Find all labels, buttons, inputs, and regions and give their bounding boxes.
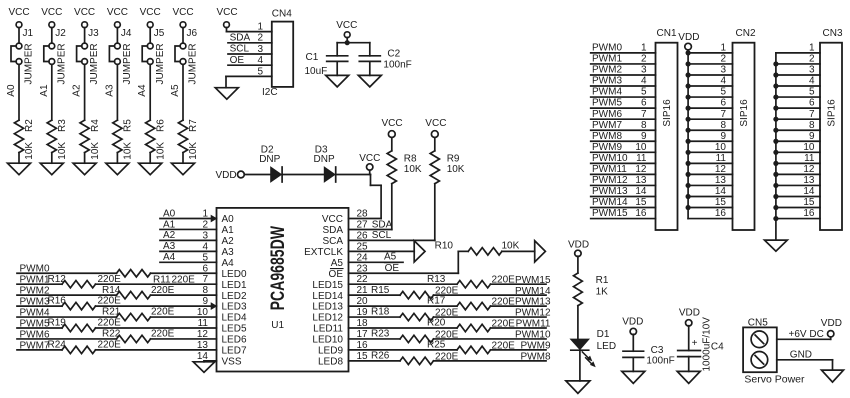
svg-text:A0: A0 (6, 84, 17, 97)
ground C3 (622, 371, 645, 383)
CN2 pin 11 wire (686, 153, 733, 166)
LED D1 (571, 329, 616, 381)
svg-text:PWM13: PWM13 (515, 297, 551, 308)
svg-text:R12: R12 (48, 274, 67, 285)
op-amp U1 PCA9685DW body (217, 208, 349, 372)
label R24 value (48, 340, 122, 351)
svg-text:2: 2 (720, 54, 726, 65)
svg-text:5: 5 (809, 87, 815, 98)
svg-text:A5: A5 (170, 84, 181, 97)
svg-text:13: 13 (715, 175, 727, 186)
svg-text:R17: R17 (427, 296, 446, 307)
svg-text:PWM6: PWM6 (592, 109, 622, 120)
svg-text:JUMPER: JUMPER (24, 43, 35, 84)
svg-text:J4: J4 (121, 28, 132, 39)
CN3 pin 12 wire (773, 164, 820, 177)
pin 24 A5 wire (349, 252, 404, 263)
svg-text:A4: A4 (163, 252, 176, 263)
svg-text:PWM0: PWM0 (592, 43, 622, 54)
capacitor C2 100nF (359, 43, 411, 76)
CN3 pin 11 wire (773, 153, 820, 166)
resistor R5 10K (113, 119, 134, 160)
svg-text:C3: C3 (651, 345, 664, 356)
jumper J3 (77, 28, 101, 85)
svg-text:SCL: SCL (372, 230, 392, 241)
pin 23 label U1 (329, 269, 344, 280)
svg-text:LED4: LED4 (222, 313, 247, 324)
wire CN4 pin5 to ground (226, 76, 272, 87)
svg-text:A2: A2 (72, 84, 83, 97)
svg-text:13: 13 (803, 175, 815, 186)
connector CN2 (733, 28, 756, 230)
ground CN5 (822, 370, 844, 382)
svg-text:12: 12 (715, 164, 727, 175)
svg-text:220E: 220E (151, 285, 175, 296)
svg-text:LED9: LED9 (318, 346, 343, 357)
VCC terminal CN4 (216, 7, 271, 31)
svg-text:OE: OE (329, 269, 344, 280)
svg-text:PWM11: PWM11 (516, 319, 551, 330)
svg-text:SCA: SCA (322, 236, 343, 247)
pin 4 CN4 (228, 55, 272, 66)
ground J6 column (172, 153, 195, 175)
svg-text:GND: GND (790, 349, 812, 360)
resistor R13 220E / wire PWM15 (349, 281, 547, 288)
svg-text:16: 16 (635, 208, 647, 219)
svg-text:PWM2: PWM2 (20, 286, 50, 297)
wire J4 to R5 (104, 64, 117, 120)
CN1 pin 4 wire PWM3 (591, 76, 656, 87)
resistor R18 220E / wire PWM12 (349, 313, 547, 320)
svg-text:LED10: LED10 (312, 335, 343, 346)
svg-text:LED15: LED15 (312, 280, 343, 291)
jumper J5 (142, 28, 166, 85)
CN3 pin 15 wire (773, 197, 820, 210)
svg-text:7: 7 (641, 109, 647, 120)
label R18 (371, 307, 459, 319)
capacitor C3 100nF (623, 345, 675, 371)
svg-text:CN4: CN4 (272, 9, 292, 20)
jumper J6 (175, 28, 199, 85)
CN3 pin 10 wire (773, 142, 820, 155)
svg-text:220E: 220E (151, 329, 175, 340)
svg-text:8: 8 (720, 120, 726, 131)
label R16 value (48, 296, 122, 307)
VCC terminal J3 (74, 7, 95, 43)
resistor R20 220E / wire PWM11 (349, 324, 547, 331)
svg-text:1: 1 (641, 43, 647, 54)
svg-text:10K: 10K (155, 142, 166, 160)
svg-text:4: 4 (720, 76, 726, 87)
node A3 wire (160, 241, 217, 252)
resistor R7 10K (178, 119, 199, 160)
wire J1 to R2 (6, 64, 19, 120)
svg-text:220E: 220E (435, 351, 459, 362)
svg-text:R4: R4 (90, 119, 101, 132)
svg-text:1: 1 (720, 43, 726, 54)
svg-text:LED7: LED7 (222, 346, 247, 357)
svg-text:VCC: VCC (359, 153, 380, 164)
CN1 pin 12 wire PWM11 (591, 164, 656, 175)
pin 2 CN4 (228, 33, 272, 44)
wire GND (777, 349, 833, 370)
svg-text:VCC: VCC (216, 7, 237, 18)
svg-text:+: + (692, 338, 698, 349)
svg-text:C4: C4 (711, 341, 724, 352)
svg-text:1: 1 (257, 21, 263, 32)
svg-text:LED6: LED6 (222, 335, 247, 346)
VDD terminal C4 (679, 308, 700, 351)
svg-text:JUMPER: JUMPER (56, 43, 67, 84)
svg-text:14: 14 (715, 186, 727, 197)
CN3 pin 8 wire (773, 120, 820, 133)
resistor R11 220E / wire PWM0 (17, 270, 217, 277)
svg-text:PWM12: PWM12 (592, 175, 628, 186)
svg-text:PWM15: PWM15 (515, 275, 551, 286)
CN2 pin 3 wire (686, 65, 733, 78)
label R22 value (102, 329, 175, 340)
svg-text:DNP: DNP (314, 154, 335, 165)
CN1 pin 11 wire PWM10 (591, 153, 656, 164)
label R17 (427, 296, 515, 308)
svg-text:R21: R21 (102, 307, 121, 318)
svg-text:LED11: LED11 (313, 324, 343, 335)
svg-text:SIP16: SIP16 (662, 99, 673, 127)
CN1 pin 5 wire PWM4 (591, 87, 656, 98)
CN2 pin 1 wire (686, 43, 733, 56)
label R15 (371, 285, 459, 297)
pin 3 CN4 (228, 44, 272, 55)
svg-text:13: 13 (635, 175, 647, 186)
CN2 pin 6 wire (686, 98, 733, 111)
jumper J4 (109, 28, 133, 85)
svg-text:PWM8: PWM8 (521, 351, 551, 362)
svg-text:A4: A4 (137, 84, 148, 97)
svg-text:VDD: VDD (821, 318, 842, 329)
CN1 pin 2 wire PWM1 (591, 54, 656, 65)
CN1 pin 13 wire PWM12 (591, 175, 656, 186)
CN3 ground bus (775, 53, 777, 240)
svg-text:PWM8: PWM8 (592, 131, 622, 142)
svg-text:PWM5: PWM5 (592, 98, 622, 109)
VCC terminal J4 (107, 7, 128, 43)
svg-text:D1: D1 (597, 329, 610, 340)
svg-text:LED0: LED0 (222, 269, 247, 280)
wire C1 to C2 (337, 42, 370, 44)
svg-text:A5: A5 (331, 258, 344, 269)
ground CN4 (215, 88, 238, 100)
svg-text:220E: 220E (98, 274, 122, 285)
svg-text:VCC: VCC (8, 7, 29, 18)
svg-text:10: 10 (715, 142, 727, 153)
CN1 pin 15 wire PWM14 (591, 197, 656, 208)
svg-text:220E: 220E (151, 307, 175, 318)
VCC terminal J1 (8, 7, 29, 43)
svg-text:R10: R10 (435, 241, 454, 252)
svg-text:8: 8 (809, 120, 815, 131)
CN2 pin 12 wire (686, 164, 733, 177)
svg-text:PWM9: PWM9 (521, 341, 551, 352)
pin 1 arrowhead (211, 216, 216, 222)
CN5 screw 2 (751, 352, 768, 369)
svg-text:9: 9 (720, 131, 726, 142)
svg-text:1K: 1K (596, 287, 609, 298)
svg-text:VCC: VCC (172, 7, 193, 18)
CN1 pin 9 wire PWM8 (591, 131, 656, 142)
svg-text:220E: 220E (492, 297, 516, 308)
svg-text:PWM2: PWM2 (592, 65, 622, 76)
svg-text:A4: A4 (222, 258, 235, 269)
svg-text:10K: 10K (404, 164, 422, 175)
VCC terminal J5 (140, 7, 161, 43)
wire J3 to R4 (72, 64, 85, 120)
svg-text:U1: U1 (271, 320, 284, 331)
pin 26 SCL wire (349, 230, 435, 241)
VCC terminal R9 (425, 118, 446, 151)
svg-text:220E: 220E (98, 296, 122, 307)
svg-text:VCC: VCC (107, 7, 128, 18)
CN1 pin 16 wire PWM15 (591, 208, 656, 219)
svg-text:VDD: VDD (568, 240, 589, 251)
svg-text:A3: A3 (104, 84, 115, 97)
resistor R24 220E / wire PWM7 (17, 346, 217, 353)
capacitor C1 10uF (305, 43, 348, 77)
svg-text:A0: A0 (163, 208, 176, 219)
svg-text:R15: R15 (371, 285, 390, 296)
connector CN4 (262, 9, 293, 99)
svg-text:15: 15 (715, 197, 727, 208)
svg-text:7: 7 (809, 109, 815, 120)
svg-text:PWM7: PWM7 (20, 340, 50, 351)
CN1 pin 14 wire PWM13 (591, 186, 656, 197)
svg-text:14: 14 (635, 186, 647, 197)
svg-text:LED14: LED14 (312, 291, 343, 302)
node A4 wire (160, 252, 217, 263)
svg-text:12: 12 (803, 164, 815, 175)
svg-text:VCC: VCC (425, 118, 446, 129)
svg-text:R14: R14 (102, 285, 121, 296)
wire J5 to R6 (137, 64, 150, 120)
svg-text:PWM3: PWM3 (592, 76, 622, 87)
CN1 pin 8 wire PWM7 (591, 120, 656, 131)
net VDD terminal (216, 170, 271, 181)
svg-text:+6V DC: +6V DC (789, 329, 824, 340)
label R23 (371, 329, 459, 341)
svg-text:4: 4 (641, 76, 647, 87)
ground CN3 (765, 240, 788, 251)
svg-text:16: 16 (715, 208, 727, 219)
pin 5 CN4 (257, 66, 263, 77)
CN3 pin 16 wire (773, 208, 820, 221)
node A1 wire (160, 219, 217, 230)
svg-text:LED: LED (597, 341, 616, 352)
resistor R4 10K (80, 119, 101, 160)
svg-text:VCC: VCC (382, 118, 403, 129)
resistor R12 220E / wire PWM1 (17, 281, 217, 288)
ground D1 (566, 381, 590, 394)
svg-text:LED1: LED1 (222, 280, 247, 291)
svg-text:PWM6: PWM6 (20, 329, 50, 340)
CN2 pin 7 wire (686, 109, 733, 122)
svg-text:A2: A2 (222, 236, 235, 247)
svg-text:SDA: SDA (322, 225, 343, 236)
resistor R22 220E / wire PWM6 (17, 335, 217, 342)
svg-text:OE: OE (385, 263, 400, 274)
svg-text:VCC: VCC (41, 7, 62, 18)
svg-text:16: 16 (803, 208, 815, 219)
resistor R2 10K (14, 119, 35, 160)
label R20 (427, 318, 515, 330)
node A2 wire (160, 230, 217, 241)
VDD terminal CN2 (678, 32, 699, 219)
svg-text:R13: R13 (427, 274, 446, 285)
resistor R25 220E / wire PWM9 (349, 346, 547, 353)
svg-text:R6: R6 (155, 119, 166, 132)
resistor R14 220E / wire PWM2 (17, 291, 217, 298)
CN2 pin 14 wire (686, 186, 733, 199)
svg-text:R25: R25 (427, 340, 446, 351)
svg-text:J3: J3 (88, 28, 99, 39)
resistor R15 220E / wire PWM14 (349, 291, 547, 298)
wire J6 to R7 (170, 64, 183, 120)
VDD terminal R1 (568, 240, 589, 273)
svg-text:VCC: VCC (322, 214, 343, 225)
svg-text:PWM13: PWM13 (592, 186, 628, 197)
svg-text:PWM14: PWM14 (515, 286, 551, 297)
svg-text:SDA: SDA (230, 32, 251, 43)
svg-text:VCC: VCC (140, 7, 161, 18)
pin 25 EXTCLK wire (349, 250, 415, 252)
svg-text:R5: R5 (123, 119, 134, 132)
label R13 (427, 274, 515, 286)
svg-text:VDD: VDD (216, 170, 237, 181)
svg-text:PWM1: PWM1 (592, 54, 622, 65)
pin 9 arrowhead (211, 303, 216, 309)
svg-text:10K: 10K (447, 164, 465, 175)
svg-text:VDD: VDD (622, 317, 643, 328)
svg-text:3: 3 (809, 65, 815, 76)
CN3 pin 3 wire (773, 65, 820, 78)
svg-text:220E: 220E (492, 275, 516, 286)
resistor R21 220E / wire PWM4 (17, 313, 217, 320)
ground C1 (326, 75, 349, 87)
label R21 value (102, 307, 175, 318)
svg-text:R22: R22 (102, 329, 121, 340)
label R25 (427, 340, 515, 352)
svg-text:PWM5: PWM5 (20, 318, 50, 329)
VCC terminal R8 (382, 118, 403, 151)
label R11 value (153, 274, 195, 285)
svg-text:R7: R7 (188, 119, 199, 132)
svg-text:10K: 10K (57, 142, 68, 160)
svg-text:220E: 220E (492, 340, 516, 351)
CN1 pin 10 wire PWM9 (591, 142, 656, 153)
svg-text:4: 4 (809, 76, 815, 87)
svg-text:DNP: DNP (259, 154, 280, 165)
svg-text:9: 9 (809, 131, 815, 142)
svg-text:EXTCLK: EXTCLK (304, 247, 343, 258)
CN1 pin 7 wire PWM6 (591, 109, 656, 120)
svg-text:PWM4: PWM4 (592, 87, 622, 98)
svg-text:J2: J2 (55, 28, 66, 39)
CN3 pin 7 wire (773, 109, 820, 122)
svg-text:8: 8 (641, 120, 647, 131)
svg-text:12: 12 (635, 164, 647, 175)
pin 14 wire (204, 360, 217, 363)
jumper J1 (11, 28, 35, 85)
svg-text:CN1: CN1 (657, 28, 677, 39)
CN2 pin 16 wire (688, 208, 732, 219)
CN3 pin 14 wire (773, 186, 820, 199)
connector CN5 (743, 318, 805, 386)
svg-text:R18: R18 (371, 307, 390, 318)
label R14 value (102, 285, 175, 296)
pin 28 wire (349, 218, 382, 220)
svg-text:R1: R1 (596, 275, 609, 286)
CN1 pin 3 wire PWM2 (591, 65, 656, 76)
svg-text:10K: 10K (90, 142, 101, 160)
ground J5 column (139, 153, 162, 175)
R10 output arrow (535, 241, 546, 262)
svg-text:10K: 10K (188, 142, 199, 160)
resistor R19 220E / wire PWM5 (17, 324, 217, 331)
svg-text:PWM14: PWM14 (592, 197, 628, 208)
CN1 pin 6 wire PWM5 (591, 98, 656, 109)
VDD terminal C3 (622, 317, 643, 352)
CN3 pin 4 wire (773, 76, 820, 89)
VCC terminal J2 (41, 7, 62, 43)
CN2 pin 4 wire (686, 76, 733, 89)
svg-text:7: 7 (720, 109, 726, 120)
svg-text:A1: A1 (39, 84, 50, 97)
svg-text:LED2: LED2 (222, 291, 247, 302)
CN3 pin 9 wire (773, 131, 820, 144)
svg-text:VCC: VCC (74, 7, 95, 18)
jumper J2 (44, 28, 68, 85)
CN5 screw 1 (751, 331, 768, 348)
svg-text:R23: R23 (371, 329, 390, 340)
svg-text:VDD: VDD (678, 32, 699, 43)
svg-text:R3: R3 (57, 119, 68, 132)
resistor R6 10K (146, 119, 167, 160)
resistor R23 220E / wire PWM10 (349, 335, 547, 342)
node VCC junction (345, 40, 350, 45)
CN2 pin 13 wire (686, 175, 733, 188)
svg-text:2: 2 (809, 54, 815, 65)
ground VSS (193, 362, 215, 373)
connector CN1 (656, 28, 678, 230)
svg-text:A1: A1 (222, 225, 235, 236)
pin 27 SDA wire (349, 219, 393, 230)
ground J3 column (73, 153, 96, 175)
svg-text:R24: R24 (48, 340, 67, 351)
svg-text:R20: R20 (427, 318, 446, 329)
svg-text:10uF: 10uF (305, 66, 328, 77)
svg-text:OE: OE (230, 55, 245, 66)
VCC terminal J6 (172, 7, 193, 43)
svg-text:LED13: LED13 (312, 302, 343, 313)
CN1 pin 1 wire PWM0 (591, 43, 656, 54)
VCC terminal C1C2 (336, 20, 357, 43)
CN3 pin 1 wire (776, 43, 820, 54)
VDD terminal CN5 (821, 318, 842, 339)
svg-text:6: 6 (720, 98, 726, 109)
diode D2 DNP (259, 145, 324, 183)
svg-text:R26: R26 (371, 350, 390, 361)
resistor R1 1K (574, 273, 609, 339)
svg-text:PWM3: PWM3 (20, 297, 50, 308)
label R19 value (48, 318, 122, 329)
